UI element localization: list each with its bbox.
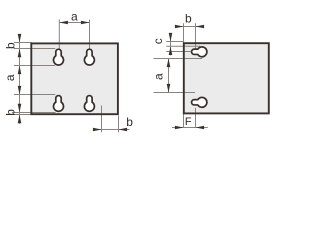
svg-text:a: a: [3, 74, 17, 81]
svg-text:b: b: [4, 42, 18, 49]
svg-text:F: F: [185, 116, 192, 128]
svg-text:b: b: [4, 109, 18, 116]
svg-text:b: b: [126, 115, 133, 129]
svg-text:a: a: [152, 73, 166, 80]
svg-text:a: a: [71, 9, 78, 23]
svg-text:b: b: [185, 11, 192, 25]
svg-text:c: c: [151, 38, 165, 44]
